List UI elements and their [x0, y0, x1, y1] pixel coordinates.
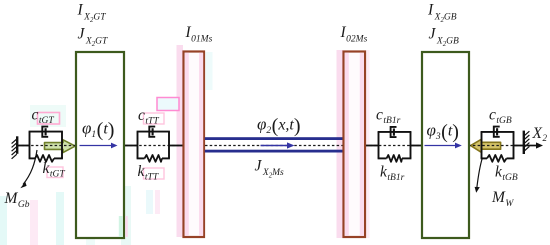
wire damper box 4 to right wall [514, 145, 524, 147]
spring k_tTT [145, 155, 163, 162]
pink artifact box around k_tGT subscript [47, 167, 63, 178]
pink halo right of rotor I02Ms [366, 50, 370, 238]
Kelvin-Voigt box 1 (cGT/kGT) frame [29, 132, 63, 159]
inertia block I_X2GT (green) [76, 52, 124, 238]
artifact strip in block GT corner [119, 216, 123, 237]
shaft upper line [205, 137, 344, 140]
blue arrow phi2 on shaft [261, 145, 289, 147]
pink halo left of rotor I01Ms [177, 45, 184, 237]
damper cup c_tGB [494, 127, 500, 137]
blue arrow phi3 inside block GB [425, 145, 457, 147]
wire rotor I02Ms to damper box 3 [365, 145, 379, 147]
rotor disc I01Ms (slender red) [184, 52, 205, 238]
spring k_tB1r [387, 155, 403, 162]
blue arrow phi1 inside block GT [80, 145, 113, 147]
right wall (fixed support) [524, 131, 530, 154]
Kelvin-Voigt box 3 (cB1r/kB1r) frame [378, 132, 412, 159]
wire damper box 3 to block GB [411, 145, 422, 147]
wire damper box 2 to rotor I01Ms [169, 145, 184, 147]
dashed centerline [17, 145, 524, 147]
fat green arrow (gear-train input) [45, 140, 76, 153]
pink artifact box around k_tTT subscript [144, 168, 165, 179]
rotor disc I02Ms (slender red) [344, 52, 366, 238]
Kelvin-Voigt box 4 (cGB/kGB) frame [481, 132, 515, 159]
damper cup c_tTT [149, 127, 155, 137]
X axis arrow [525, 145, 538, 147]
pink artifact box around c_tTT subscript [144, 113, 165, 124]
curved arrow to M_Gb [23, 150, 37, 185]
pink halo left of rotor I02Ms [337, 50, 344, 238]
inertia block I_X2GB (green) [422, 52, 469, 238]
spring k_tGB [487, 155, 507, 162]
wire block GT to damper box 2 [125, 145, 138, 147]
pink artifact box around c_tGT subscript [38, 113, 60, 125]
shaft lower line [205, 150, 344, 153]
damper cup c_tGT [42, 127, 48, 137]
fat khaki arrow (gearbox output, pointing left) [471, 139, 501, 152]
Kelvin-Voigt box 2 (cTT/kTT) frame [137, 132, 170, 159]
curved arrow to M_W [477, 158, 483, 189]
spring k_tGT [35, 155, 54, 162]
wire wall to damper box 1 [17, 145, 30, 147]
damper cup c_tB1r [391, 127, 397, 137]
left wall (fixed support) [12, 136, 18, 159]
jpeg artifact strips [0, 52, 213, 245]
